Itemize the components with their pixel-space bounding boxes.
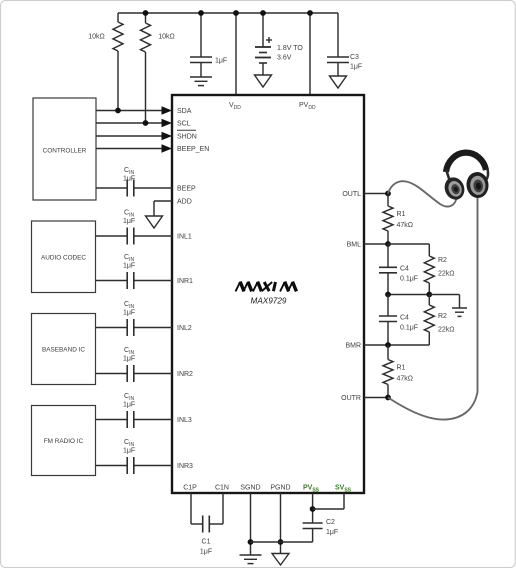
svg-text:INR2: INR2 — [177, 371, 193, 378]
svg-text:BEEP: BEEP — [177, 186, 196, 193]
svg-text:1μF: 1μF — [215, 58, 227, 65]
svg-text:ADD: ADD — [177, 199, 192, 206]
svg-text:AUDIO CODEC: AUDIO CODEC — [41, 254, 86, 261]
svg-text:R2: R2 — [438, 313, 447, 320]
svg-text:1.8V TO: 1.8V TO — [277, 45, 303, 52]
svg-text:47kΩ: 47kΩ — [397, 376, 414, 383]
svg-text:1μF: 1μF — [123, 310, 135, 317]
svg-text:C1: C1 — [202, 539, 211, 546]
svg-text:C1P: C1P — [183, 485, 197, 492]
svg-text:C4: C4 — [400, 315, 409, 322]
svg-text:BML: BML — [347, 242, 362, 249]
svg-text:0.1μF: 0.1μF — [400, 325, 418, 332]
svg-text:47kΩ: 47kΩ — [397, 222, 414, 229]
svg-text:C1N: C1N — [215, 485, 229, 492]
svg-text:10kΩ: 10kΩ — [88, 34, 105, 41]
svg-text:OUTL: OUTL — [342, 191, 361, 198]
svg-text:R1: R1 — [397, 365, 406, 372]
svg-text:INR3: INR3 — [177, 463, 193, 470]
svg-text:1μF: 1μF — [123, 448, 135, 455]
svg-text:C4: C4 — [400, 266, 409, 273]
svg-text:R1: R1 — [397, 211, 406, 218]
svg-text:INL3: INL3 — [177, 417, 192, 424]
svg-text:22kΩ: 22kΩ — [438, 327, 455, 334]
svg-text:1μF: 1μF — [200, 549, 212, 556]
svg-text:BASEBAND IC: BASEBAND IC — [42, 347, 85, 354]
svg-text:1μF: 1μF — [350, 64, 362, 71]
svg-text:0.1μF: 0.1μF — [400, 276, 418, 283]
svg-text:OUTR: OUTR — [341, 395, 361, 402]
svg-text:INR1: INR1 — [177, 278, 193, 285]
svg-text:BMR: BMR — [345, 343, 361, 350]
svg-text:R2: R2 — [438, 257, 447, 264]
svg-text:MAX9729: MAX9729 — [251, 297, 287, 306]
svg-text:1μF: 1μF — [123, 218, 135, 225]
svg-text:1μF: 1μF — [123, 176, 135, 183]
svg-text:22kΩ: 22kΩ — [438, 271, 455, 278]
svg-text:SDA: SDA — [177, 108, 192, 115]
svg-text:1μF: 1μF — [123, 356, 135, 363]
svg-text:1μF: 1μF — [326, 529, 338, 536]
svg-text:10kΩ: 10kΩ — [158, 34, 175, 41]
svg-text:C2: C2 — [326, 519, 335, 526]
svg-text:1μF: 1μF — [123, 402, 135, 409]
svg-text:1μF: 1μF — [123, 263, 135, 270]
svg-text:INL1: INL1 — [177, 234, 192, 241]
svg-text:SCL: SCL — [177, 121, 191, 128]
svg-text:BEEP_EN: BEEP_EN — [177, 146, 209, 153]
svg-text:3.6V: 3.6V — [277, 55, 292, 62]
svg-text:INL2: INL2 — [177, 325, 192, 332]
svg-text:SHDN: SHDN — [177, 134, 197, 141]
svg-text:CONTROLLER: CONTROLLER — [43, 148, 87, 155]
svg-text:FM RADIO IC: FM RADIO IC — [44, 438, 84, 445]
svg-text:C3: C3 — [350, 54, 359, 61]
svg-text:SGND: SGND — [240, 485, 260, 492]
svg-text:PGND: PGND — [270, 485, 290, 492]
